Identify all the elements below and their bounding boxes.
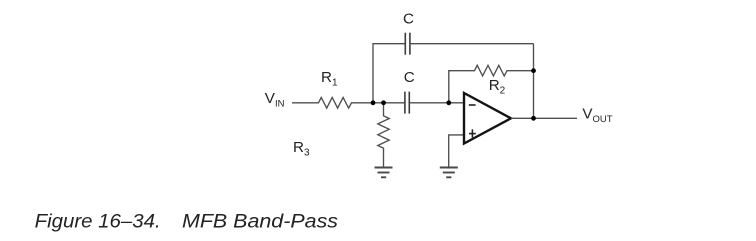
- svg-text:R3: R3: [293, 139, 310, 159]
- svg-text:VOUT: VOUT: [582, 106, 612, 126]
- svg-text:R2: R2: [489, 77, 506, 97]
- svg-text:VIN: VIN: [265, 90, 285, 110]
- svg-text:C: C: [403, 10, 414, 27]
- svg-text:R1: R1: [321, 69, 338, 89]
- svg-text:Figure 16–34.: Figure 16–34.: [35, 211, 161, 233]
- svg-text:C: C: [404, 69, 415, 86]
- svg-text:MFB Band-Pass: MFB Band-Pass: [182, 211, 338, 233]
